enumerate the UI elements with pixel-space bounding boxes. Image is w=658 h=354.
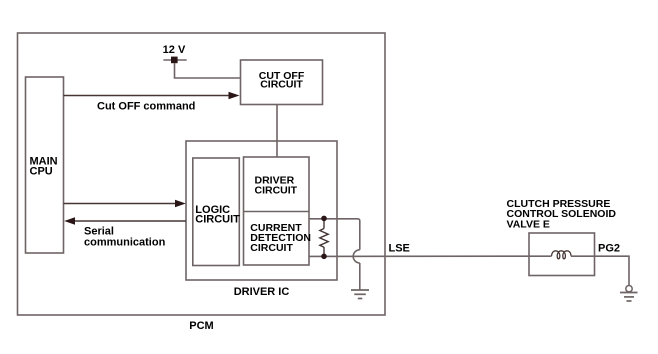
wire cut off command <box>64 92 240 99</box>
wire serial to main cpu <box>64 217 186 224</box>
wire hop over LSE line <box>353 250 360 263</box>
ground (PCM internal) <box>351 290 369 299</box>
PG2 connector circle <box>626 286 632 292</box>
supply 12V terminal <box>163 57 186 64</box>
wire coil to box edge <box>571 255 595 257</box>
driver circuit label <box>255 175 298 197</box>
resistor (current sense) <box>320 218 328 256</box>
wire 12V to cut off circuit <box>175 63 241 78</box>
svg-text:Cut OFF command: Cut OFF command <box>97 101 195 113</box>
logic circuit label <box>195 204 240 226</box>
svg-text:CPU: CPU <box>30 166 53 178</box>
svg-text:CIRCUIT: CIRCUIT <box>250 242 293 254</box>
driver ic box <box>186 141 337 280</box>
wire LSE line <box>309 255 552 257</box>
svg-text:CIRCUIT: CIRCUIT <box>195 214 240 226</box>
svg-text:DRIVER IC: DRIVER IC <box>234 286 290 298</box>
svg-text:PCM: PCM <box>189 320 213 332</box>
svg-text:LSE: LSE <box>389 243 410 255</box>
wire serial to logic circuit <box>64 200 186 207</box>
main cpu label <box>30 156 58 178</box>
serial communication label <box>84 225 166 248</box>
node junction upper <box>321 216 327 222</box>
clutch pressure control solenoid valve E label <box>507 198 617 230</box>
svg-text:CIRCUIT: CIRCUIT <box>255 184 298 196</box>
current detection circuit label <box>250 222 311 254</box>
driver / current detection box <box>244 157 310 265</box>
main cpu box <box>26 77 64 253</box>
solenoid valve box <box>529 233 595 276</box>
node junction lower <box>321 253 327 259</box>
PCM enclosure box <box>18 33 386 315</box>
wire current detection upper tap <box>309 219 360 250</box>
svg-text:communication: communication <box>84 236 166 248</box>
wire cut off circuit to driver circuit <box>276 105 278 158</box>
ground PG2 <box>620 293 638 302</box>
svg-text:PG2: PG2 <box>598 243 620 255</box>
cut off circuit box <box>241 60 323 105</box>
cut off circuit label <box>259 70 305 91</box>
svg-text:12 V: 12 V <box>163 44 186 56</box>
logic circuit box <box>193 158 240 266</box>
svg-text:VALVE E: VALVE E <box>507 218 550 230</box>
wire PG2 to ground <box>595 256 630 285</box>
wire hop to ground <box>359 263 361 290</box>
divider line between driver circuit and current detection circuit <box>244 211 310 213</box>
solenoid coil L1 <box>552 251 571 259</box>
svg-text:CIRCUIT: CIRCUIT <box>260 79 303 91</box>
